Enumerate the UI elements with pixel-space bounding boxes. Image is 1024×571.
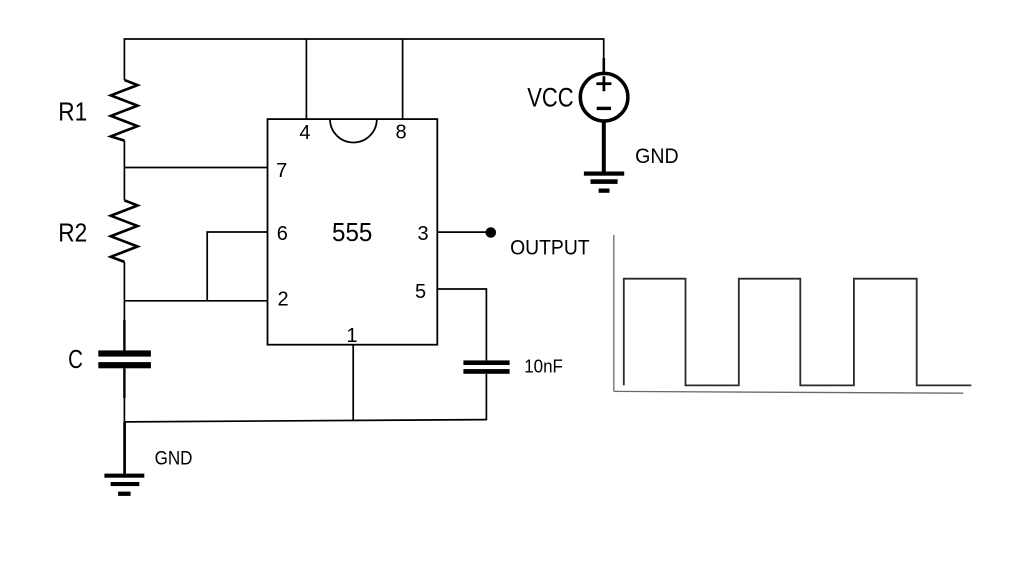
svg-text:1: 1 — [346, 325, 357, 347]
wire pin 5 to 10nF — [437, 289, 486, 360]
wire pin 7 — [124, 167, 267, 169]
wire pin 1 to bottom rail — [352, 345, 354, 421]
svg-text:7: 7 — [276, 160, 287, 182]
resistor R1 — [111, 39, 138, 168]
capacitor C2 10nF — [463, 360, 509, 420]
waveform y-axis — [613, 235, 615, 391]
wire top power rail — [124, 38, 604, 40]
svg-text:GND: GND — [635, 145, 679, 168]
svg-text:2: 2 — [277, 288, 288, 310]
svg-text:OUTPUT: OUTPUT — [510, 237, 590, 260]
op-amp U1 555 IC body — [268, 119, 438, 345]
svg-text:GND: GND — [155, 448, 193, 470]
svg-text:C: C — [68, 346, 83, 374]
wire pin 3 output — [437, 231, 487, 233]
svg-text:VCC: VCC — [527, 83, 573, 113]
wire rail to VCC source — [603, 38, 605, 62]
svg-text:8: 8 — [396, 122, 407, 144]
wire pin 4 to rail — [305, 39, 307, 120]
node OUTPUT dot — [486, 227, 497, 238]
voltage source VCC — [580, 58, 628, 121]
capacitor C — [98, 301, 151, 422]
svg-text:10nF: 10nF — [524, 355, 563, 376]
svg-text:5: 5 — [415, 281, 426, 303]
svg-text:555: 555 — [332, 217, 372, 247]
wire pin 8 to rail — [402, 39, 404, 120]
svg-text:6: 6 — [277, 223, 288, 245]
svg-text:R2: R2 — [58, 217, 87, 247]
IC notch — [330, 119, 377, 142]
wire pin 2 — [124, 300, 267, 302]
ground (VCC source) — [584, 121, 624, 193]
wire bottom ground rail — [124, 420, 486, 422]
svg-text:3: 3 — [417, 223, 428, 245]
svg-text:4: 4 — [299, 122, 310, 144]
svg-text:R1: R1 — [58, 96, 87, 126]
wire pin 6 branch — [207, 232, 267, 301]
resistor R2 — [111, 168, 138, 301]
waveform square wave trace — [624, 279, 972, 386]
waveform x-axis — [614, 391, 964, 393]
ground (left) — [104, 422, 144, 496]
